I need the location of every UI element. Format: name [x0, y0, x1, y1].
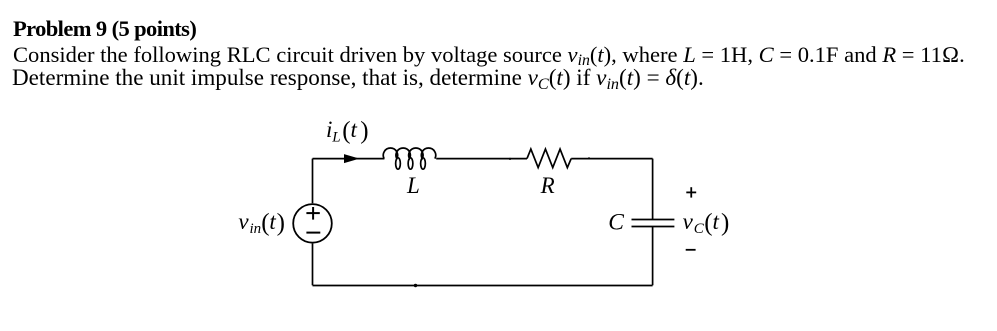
svg-text:(: (: [261, 210, 269, 237]
inductor loop 3: [421, 158, 426, 169]
svg-text:t: t: [269, 209, 276, 234]
wire: bottom horizontal: [313, 285, 653, 287]
voltage source plus sign: [306, 207, 319, 220]
label plus polarity: [686, 187, 696, 197]
voltage source U circle: [293, 204, 332, 243]
current arrow on top wire: [344, 154, 360, 163]
svg-text:t: t: [713, 209, 720, 234]
label iL(t): [326, 117, 369, 145]
svg-text:v: v: [683, 209, 694, 234]
line 2: [13, 44, 965, 70]
svg-text:): ): [721, 210, 729, 237]
resistor R zigzag: [527, 149, 571, 168]
line 3: [12, 66, 704, 92]
label vC(t): [683, 209, 730, 237]
svg-text:(: (: [704, 210, 712, 237]
junction tick on top wire (left): [509, 158, 511, 160]
voltage source minus sign: [306, 232, 320, 234]
svg-text:(: (: [342, 118, 350, 145]
svg-text:): ): [360, 118, 368, 145]
label vin(t): [238, 209, 285, 237]
inductor loop 2: [408, 158, 413, 169]
wire: right vertical from corner to capacitor top plate: [652, 159, 654, 220]
inductor loop 1: [396, 158, 401, 169]
svg-text:C: C: [694, 221, 705, 237]
svg-text:t: t: [351, 117, 358, 142]
line 1: problem heading: [13, 18, 196, 41]
svg-text:L: L: [331, 129, 340, 145]
junction dot on bottom wire: [414, 284, 417, 287]
wire: left vertical from source bottom to bottom-left corner: [312, 244, 314, 286]
wire: top segment from resistor to top-right corner: [571, 158, 652, 160]
svg-text:L: L: [406, 173, 420, 198]
label minus polarity: [686, 249, 696, 251]
svg-text:): ): [277, 210, 285, 237]
wire: left vertical (source top to top-left corner): [312, 159, 314, 204]
wire: top segment from inductor to resistor: [436, 158, 527, 160]
svg-text:v: v: [238, 209, 249, 234]
wire: top segment from corner to inductor: [313, 158, 385, 160]
capacitor C top plate: [632, 219, 675, 221]
svg-text:C: C: [608, 209, 624, 235]
junction tick on top wire (right): [588, 157, 590, 159]
capacitor C bottom plate: [632, 226, 675, 228]
wire: right vertical from capacitor to bottom-right corner: [652, 227, 654, 286]
svg-text:R: R: [540, 173, 555, 198]
inductor L coil humps: [383, 148, 436, 159]
svg-text:in: in: [250, 221, 262, 237]
